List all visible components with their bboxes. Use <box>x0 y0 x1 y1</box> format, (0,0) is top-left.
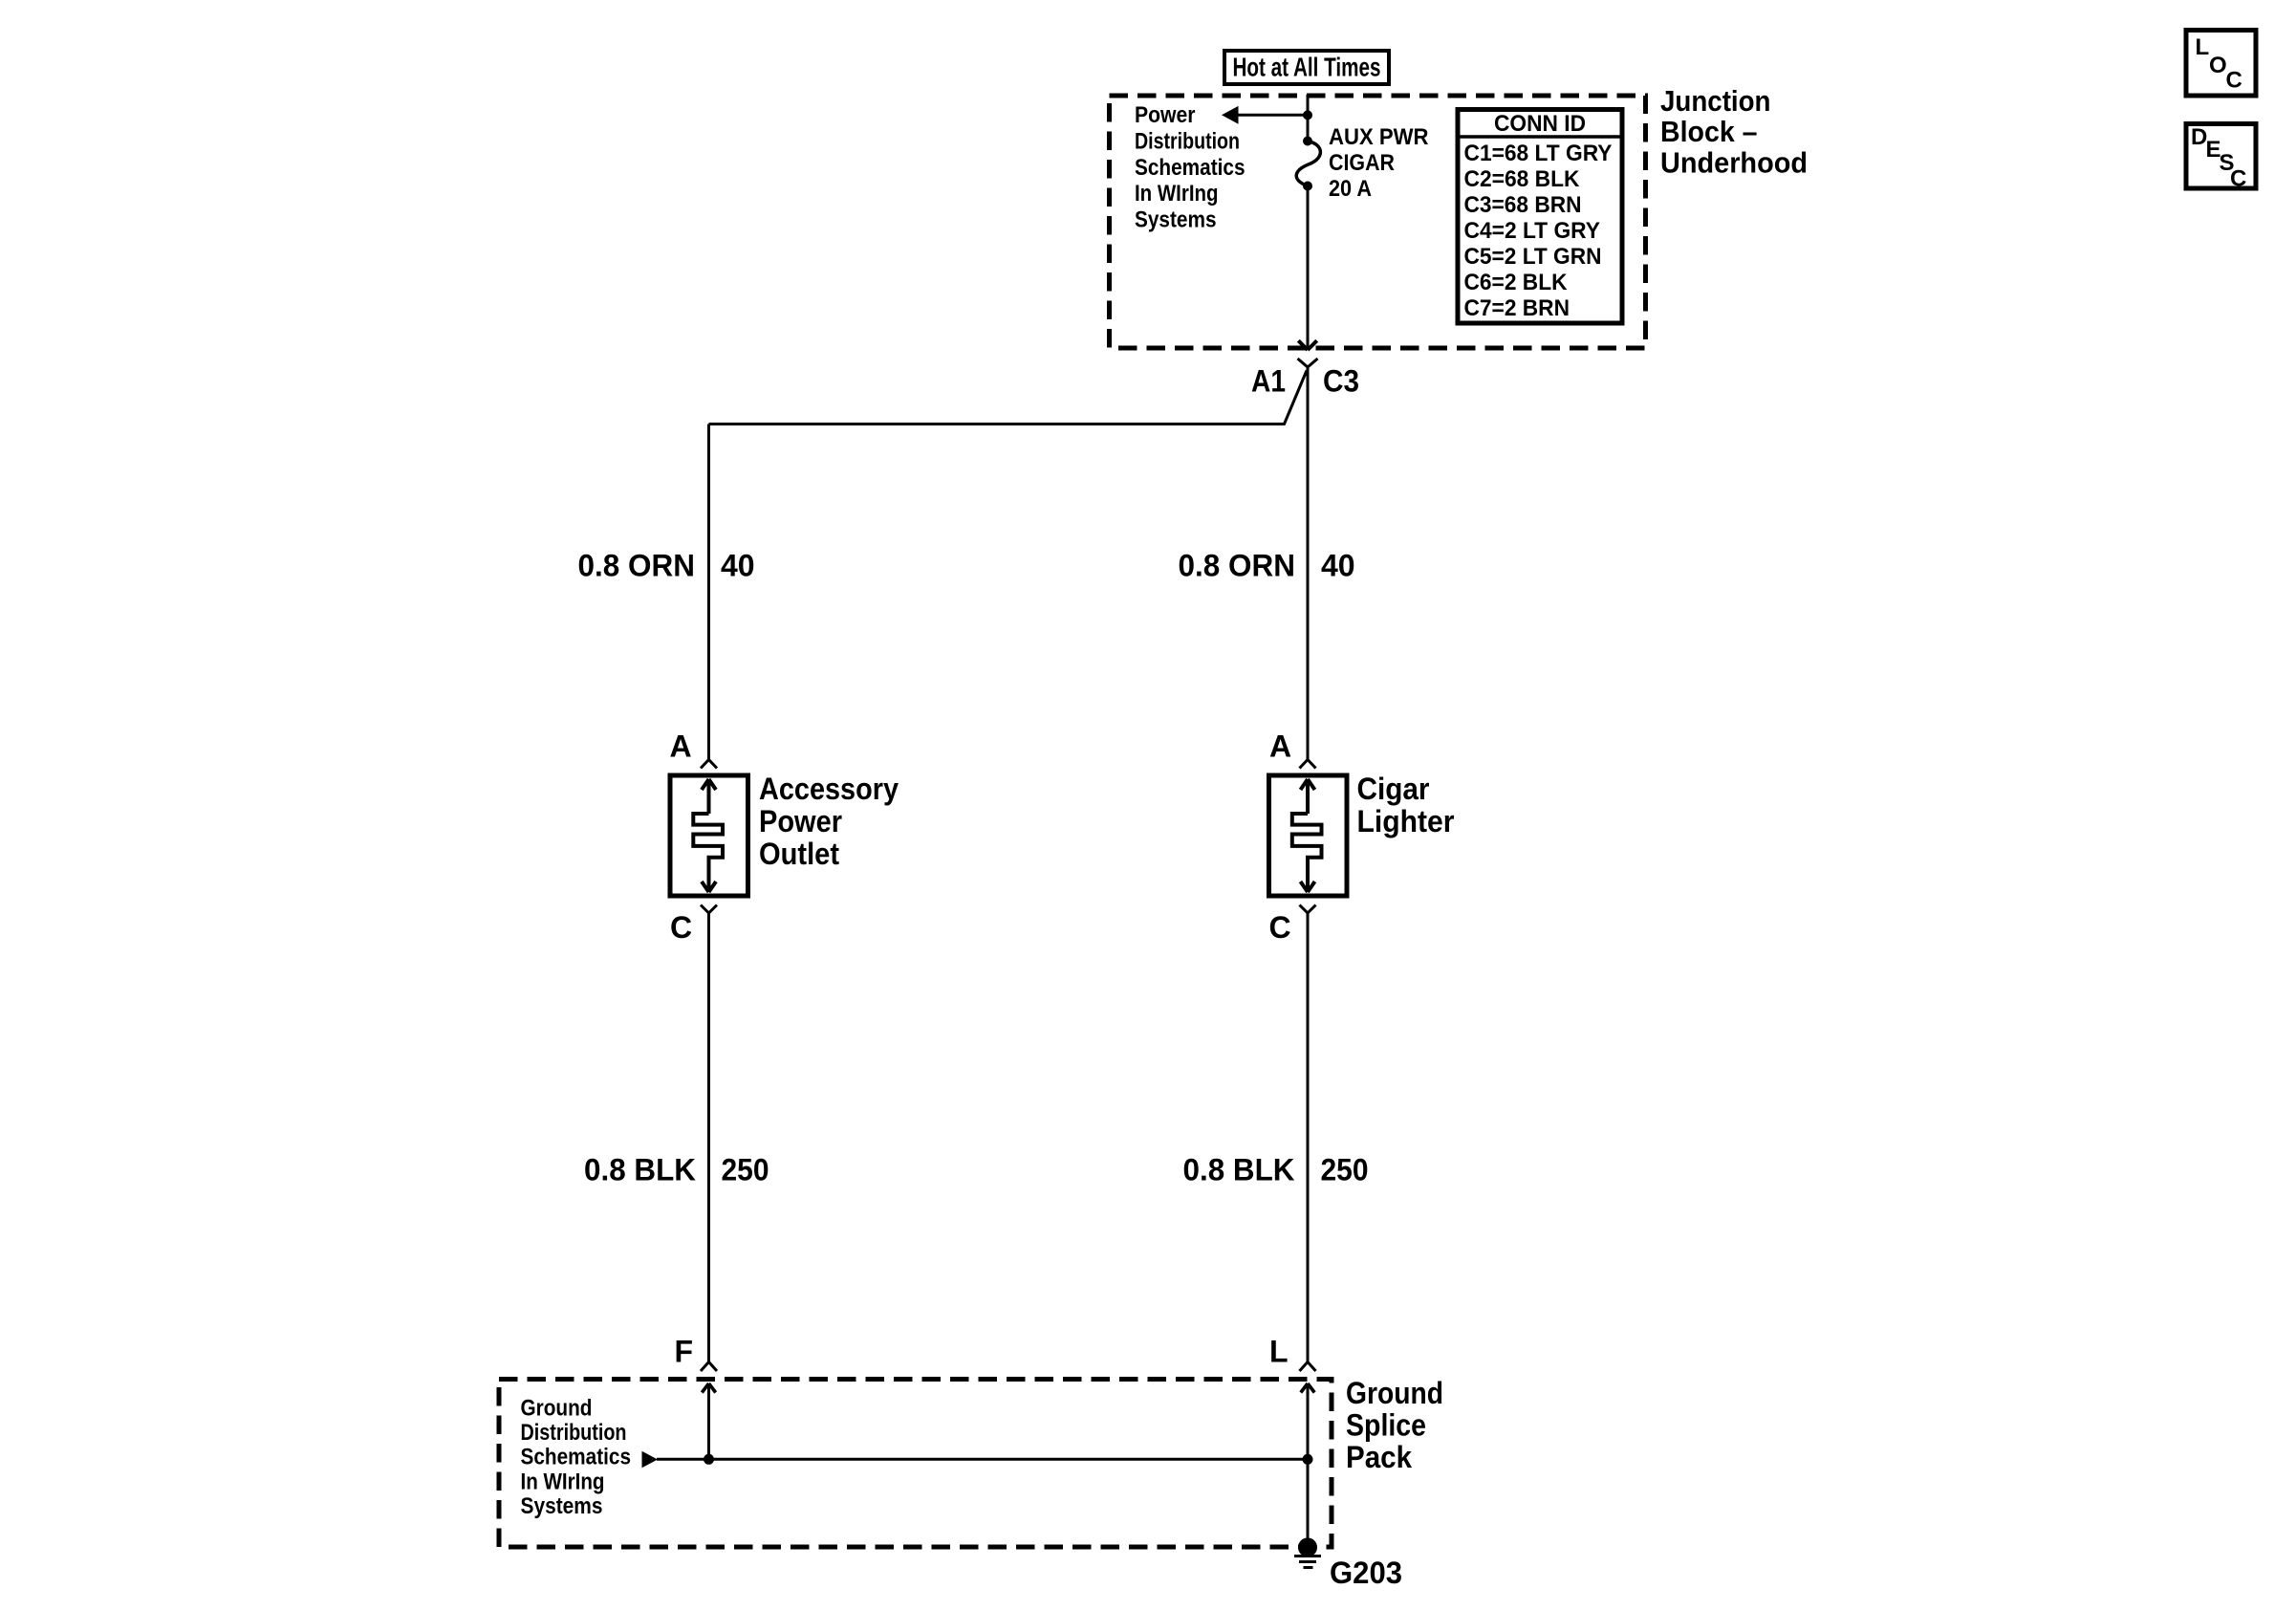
svg-text:C2=68 BLK: C2=68 BLK <box>1464 166 1581 192</box>
wire: left branch down to accessory power outlet <box>707 425 710 760</box>
junction block dashed box <box>1110 96 1646 348</box>
CONN ID table <box>1458 110 1622 324</box>
svg-text:C1=68 LT GRY: C1=68 LT GRY <box>1464 141 1613 166</box>
wire: accessory power outlet C down to ground splice F <box>707 913 710 1362</box>
svg-text:0.8 BLK: 0.8 BLK <box>584 1153 696 1187</box>
wire: fuse output down to connector C3 <box>1307 186 1310 348</box>
svg-text:Splice: Splice <box>1346 1408 1426 1443</box>
svg-text:0.8 ORN: 0.8 ORN <box>1179 549 1296 583</box>
wire: C3 down to cigar lighter <box>1307 367 1310 760</box>
wire: diagonal branch and horizontal run to accessory power outlet <box>709 371 1308 425</box>
wire: cigar lighter C down to ground splice L <box>1307 913 1310 1362</box>
svg-text:In WIrIng: In WIrIng <box>521 1469 605 1494</box>
node: ground bus junction dot (right) <box>1303 1454 1313 1465</box>
label: Ground Splice Pack <box>1346 1376 1443 1474</box>
wire: branch to power distribution (left arrow) <box>1237 114 1308 117</box>
svg-text:C: C <box>2230 165 2246 191</box>
component box: Accessory Power Outlet <box>670 775 748 896</box>
svg-text:F: F <box>675 1335 694 1369</box>
arrowhead pointing down at junction block exit <box>1298 340 1316 350</box>
svg-text:250: 250 <box>1321 1153 1369 1187</box>
DESC box <box>2186 124 2256 192</box>
svg-text:Underhood: Underhood <box>1660 146 1808 179</box>
svg-text:Accessory: Accessory <box>759 772 899 806</box>
label: Cigar Lighter <box>1357 772 1455 838</box>
connector chevron at F <box>701 1362 717 1372</box>
svg-text:Distribution: Distribution <box>521 1420 627 1446</box>
svg-text:Schematics: Schematics <box>1135 155 1245 181</box>
arrowhead from Ground Distribution pointing right <box>642 1451 659 1468</box>
svg-text:C: C <box>670 910 692 945</box>
svg-text:L: L <box>2196 34 2210 60</box>
node: G203 splice dot <box>1298 1537 1317 1557</box>
svg-text:AUX PWR: AUX PWR <box>1329 124 1429 150</box>
svg-text:C3=68 BRN: C3=68 BRN <box>1464 192 1582 218</box>
wire: F splice stub down to ground bus <box>707 1385 710 1459</box>
svg-text:Block –: Block – <box>1660 116 1758 148</box>
LOC box <box>2186 31 2256 97</box>
svg-text:Distribution: Distribution <box>1135 128 1240 154</box>
component box: Cigar Lighter <box>1269 775 1348 896</box>
svg-text:In WIrIng: In WIrIng <box>1135 181 1219 207</box>
svg-text:C6=2 BLK: C6=2 BLK <box>1464 270 1569 295</box>
node: junction dot on feed wire <box>1303 110 1312 120</box>
svg-text:0.8 BLK: 0.8 BLK <box>1183 1153 1295 1187</box>
fuse: AUX PWR CIGAR 20 A <box>1296 137 1320 191</box>
svg-text:CIGAR: CIGAR <box>1329 150 1395 176</box>
svg-text:CONN ID: CONN ID <box>1494 111 1586 137</box>
svg-text:40: 40 <box>721 549 755 583</box>
svg-text:Ground: Ground <box>521 1395 593 1421</box>
arrowhead up into L (inside dashed box) <box>1301 1383 1314 1393</box>
svg-text:Power: Power <box>1135 102 1196 128</box>
svg-text:C4=2 LT GRY: C4=2 LT GRY <box>1464 218 1601 244</box>
svg-text:Outlet: Outlet <box>759 837 839 871</box>
svg-text:Schematics: Schematics <box>521 1445 632 1470</box>
svg-text:250: 250 <box>722 1153 769 1187</box>
wire: ground bus horizontal <box>657 1458 1308 1461</box>
connector chevron at L <box>1300 1362 1316 1372</box>
svg-text:Junction: Junction <box>1660 85 1771 118</box>
svg-text:Hot at All Times: Hot at All Times <box>1233 53 1381 82</box>
svg-text:Systems: Systems <box>1135 207 1217 233</box>
connector chevron at A (left) <box>701 760 717 769</box>
svg-text:C7=2 BRN: C7=2 BRN <box>1464 295 1570 321</box>
note: Power Distribution Schematics in Wiring Systems <box>1135 102 1245 233</box>
svg-text:20 A: 20 A <box>1329 176 1372 202</box>
label: Accessory Power Outlet <box>759 772 899 871</box>
svg-text:0.8 ORN: 0.8 ORN <box>578 549 696 583</box>
connector chevron at C (right) <box>1300 905 1316 914</box>
svg-text:Ground: Ground <box>1346 1376 1443 1410</box>
label: AUX PWR CIGAR 20 A <box>1329 124 1429 202</box>
arrowhead pointing left to Power Distribution <box>1222 106 1239 124</box>
note: Ground Distribution Schematics in Wiring Systems <box>521 1395 632 1519</box>
arrowhead up into F (inside dashed box) <box>702 1383 715 1393</box>
svg-text:L: L <box>1269 1335 1289 1369</box>
svg-text:C: C <box>1269 910 1291 945</box>
svg-text:O: O <box>2209 53 2227 78</box>
connector A1/C3 chevron <box>1298 359 1318 367</box>
connector chevron at A (right) <box>1300 760 1316 769</box>
svg-text:C3: C3 <box>1323 364 1359 399</box>
svg-text:G203: G203 <box>1330 1556 1402 1590</box>
ground symbol G203 <box>1294 1557 1321 1568</box>
svg-text:40: 40 <box>1321 549 1355 583</box>
ground splice pack dashed box <box>499 1380 1332 1548</box>
heating element symbol (accessory power outlet) <box>693 779 723 892</box>
svg-text:A: A <box>670 729 692 764</box>
svg-text:C5=2 LT GRN: C5=2 LT GRN <box>1464 244 1602 270</box>
svg-text:A: A <box>1269 729 1291 764</box>
connector chevron at C (left) <box>701 905 717 914</box>
label: Junction Block - Underhood <box>1660 85 1808 179</box>
svg-text:A1: A1 <box>1251 364 1286 399</box>
svg-text:Systems: Systems <box>521 1493 603 1519</box>
svg-text:Pack: Pack <box>1346 1440 1412 1474</box>
svg-text:C: C <box>2226 68 2242 94</box>
wire: L splice down through ground bus to G203 <box>1307 1385 1310 1547</box>
wire: feed from Hot at All Times into junction block <box>1307 95 1310 142</box>
label box: Hot at All Times <box>1224 51 1389 84</box>
svg-text:Lighter: Lighter <box>1357 804 1455 838</box>
svg-text:Cigar: Cigar <box>1357 772 1430 806</box>
svg-text:Power: Power <box>759 804 842 838</box>
node: ground bus junction dot (left) <box>704 1454 714 1465</box>
heating element symbol (cigar lighter) <box>1292 779 1322 892</box>
